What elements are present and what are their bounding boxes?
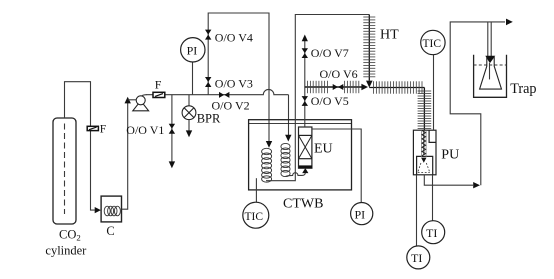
- hatch ticks horizontal EU-to-HT: [308, 81, 359, 93]
- arrow down V1 drain: [169, 161, 175, 168]
- PU inner tube hatched: [423, 130, 425, 155]
- CTWB water bath box: [249, 120, 352, 190]
- hatch ticks horizontal segment left: [0, 0, 1, 1]
- indicator TI upper circle: [422, 221, 445, 244]
- gauge PI top circle: [181, 38, 205, 62]
- pipe V1 drain drop: [171, 95, 173, 162]
- filter F2: [87, 126, 98, 130]
- svg-text:PI: PI: [355, 208, 366, 222]
- valve O/O V5: [302, 96, 308, 106]
- BPR valve circle with X: [182, 106, 196, 120]
- svg-text:F: F: [155, 78, 162, 92]
- svg-text:O/O V5: O/O V5: [311, 94, 349, 108]
- pipe EU top to V5 V7 vent line: [304, 41, 306, 127]
- valve O/O V3: [205, 77, 211, 87]
- svg-text:TIC: TIC: [423, 38, 442, 50]
- controller TIC right stem: [433, 55, 435, 130]
- pipe EU to bottom PI gauge: [312, 129, 361, 203]
- arrow into cooler C: [95, 207, 101, 213]
- arrow right into HT corner: [361, 84, 368, 91]
- svg-text:BPR: BPR: [197, 112, 221, 126]
- svg-text:O/O V1: O/O V1: [126, 123, 164, 137]
- trap water dashed line: [474, 64, 507, 66]
- PU collection unit box: [413, 130, 436, 175]
- valve O/O V2: [219, 92, 229, 98]
- valve O/O V6: [333, 84, 344, 90]
- arrow down into trap flask: [485, 56, 495, 64]
- main pipe with bridge over V4 drop: [146, 89, 289, 94]
- arrow right PU outlet: [473, 182, 480, 188]
- pipe coil2 bottom to EU bottom with bridge: [286, 173, 306, 177]
- PU dashed flask: [418, 163, 430, 173]
- pump P circle: [136, 96, 145, 105]
- TIC left stem: [255, 178, 257, 202]
- CO2 cylinder: [53, 118, 76, 224]
- pipe V3 V4 bypass loop: [208, 13, 269, 142]
- trap flask: [480, 57, 502, 89]
- controller TIC left circle: [243, 202, 269, 228]
- pipe BPR drain: [188, 120, 190, 131]
- pipe C outlet up to pump inlet: [122, 100, 128, 209]
- valve O/O V1: [169, 124, 175, 134]
- pipe pump inlet horizontal: [128, 99, 137, 101]
- svg-text:O/O V6: O/O V6: [320, 67, 358, 81]
- coil 2: [281, 143, 290, 176]
- arrow down into coil2: [285, 135, 291, 142]
- svg-text:O/O V7: O/O V7: [311, 46, 349, 60]
- arrow right vent after trap: [506, 19, 513, 26]
- svg-text:PU: PU: [441, 148, 459, 163]
- filter F1: [153, 92, 165, 97]
- pipe PI gauge stem: [192, 61, 194, 95]
- valve O/O V7: [302, 48, 308, 58]
- coil 1: [262, 148, 272, 182]
- svg-text:TIC: TIC: [245, 211, 264, 223]
- hatched pipe EU vent to HT corner: [305, 86, 366, 88]
- svg-text:C: C: [106, 224, 114, 238]
- svg-text:O/O V3: O/O V3: [215, 76, 253, 90]
- cooler C coil: [104, 206, 120, 216]
- trap inlet tube double line: [488, 22, 491, 57]
- trap dip tube: [489, 63, 491, 79]
- trap beaker: [474, 55, 507, 98]
- PU inner tube channel: [422, 130, 427, 157]
- arrow up vent V7: [302, 35, 308, 42]
- hatched pipe drop into PU: [423, 88, 425, 131]
- arrow down HT bottom: [366, 81, 373, 88]
- pipe coil1 bottom to riser to HT top: [266, 15, 369, 181]
- hatch ticks horizontal HT-to-PU: [374, 81, 423, 93]
- hatched pipe HT corner to PU drop: [369, 87, 424, 89]
- HT heated tube vertical: [368, 15, 370, 81]
- svg-text:CO2: CO2: [59, 227, 81, 242]
- pipe cylinder outlet to filter F2 to cooler C: [65, 82, 95, 210]
- arrow up at pump inlet: [125, 97, 131, 104]
- pipe trap riser loop: [450, 22, 505, 185]
- svg-text:HT: HT: [380, 27, 399, 42]
- svg-text:TI: TI: [426, 226, 437, 240]
- arrow down BPR drain: [186, 130, 192, 137]
- cooler C box: [101, 196, 121, 222]
- svg-text:TI: TI: [411, 251, 422, 265]
- controller TIC right circle: [421, 30, 445, 54]
- svg-text:O/O V2: O/O V2: [212, 99, 250, 113]
- TI stems: [417, 175, 433, 246]
- pipe BPR stem: [188, 95, 190, 106]
- svg-text:EU: EU: [314, 141, 333, 156]
- valve O/O V4: [205, 30, 211, 40]
- svg-text:CTWB: CTWB: [283, 196, 323, 211]
- PU inner arrow: [421, 158, 426, 163]
- indicator TI lower circle: [407, 246, 430, 269]
- svg-text:O/O V4: O/O V4: [215, 30, 253, 44]
- pipe main drop to coil2: [288, 95, 290, 136]
- arrow up into EU bottom: [302, 168, 308, 173]
- hatch ticks vertical drop to PU: [418, 91, 432, 129]
- pipe pump outlet curve: [142, 95, 147, 96]
- svg-text:cylinder: cylinder: [45, 244, 87, 258]
- pump P triangle: [133, 101, 149, 111]
- svg-text:PI: PI: [187, 43, 198, 57]
- PU inner tube zigzag: [422, 131, 426, 156]
- svg-text:Trap: Trap: [510, 81, 536, 97]
- arrow down into coil1: [266, 141, 272, 148]
- gauge PI bottom circle: [351, 203, 373, 225]
- extraction unit EU: [299, 127, 313, 168]
- hatch ticks HT vertical: [363, 17, 375, 77]
- pipe PU outlet to trap loop: [424, 175, 473, 185]
- svg-text:F: F: [100, 123, 106, 135]
